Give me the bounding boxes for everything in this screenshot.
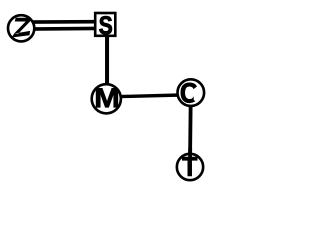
node T label: [182, 157, 197, 176]
node Z label: [12, 18, 32, 38]
edge Z=S double line (lower): [28, 27, 96, 31]
node C label aperture cut: [193, 86, 199, 102]
node M circle: [92, 84, 121, 113]
node M label: [96, 88, 118, 107]
node S square: [95, 13, 115, 36]
edge Z=S double line (upper): [28, 20, 96, 24]
edge S-M wire: [105, 34, 109, 88]
edge C-T wire inside T node: [188, 148, 192, 158]
edge M-C wire: [106, 95, 191, 97]
node C label: [181, 83, 197, 103]
node S label: [99, 16, 112, 34]
node C circle: [178, 79, 205, 106]
node Z circle: [8, 15, 34, 41]
edge C-T wire: [188, 105, 192, 158]
node T circle: [177, 154, 203, 180]
